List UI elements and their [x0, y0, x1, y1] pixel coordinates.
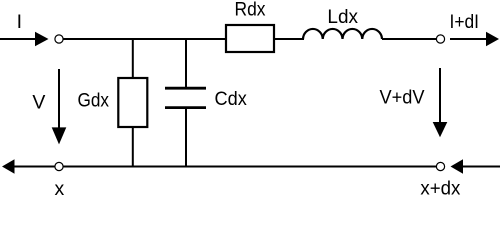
node right bottom terminal — [436, 162, 444, 170]
wire bottom-left — [14, 166, 56, 168]
node left top terminal — [55, 35, 63, 43]
arrowhead output current I+dI — [486, 32, 499, 46]
arrowhead input current I — [35, 32, 49, 46]
resistor G (Gdx) — [118, 78, 147, 127]
arrow voltage V head — [52, 127, 67, 144]
node right top terminal — [436, 35, 444, 43]
wire between Rdx and Ldx — [275, 38, 304, 40]
wire top-right — [382, 38, 436, 40]
wire Gdx top lead — [132, 38, 134, 79]
svg-text:x: x — [55, 178, 65, 197]
capacitor C bottom plate — [165, 106, 206, 109]
svg-text:V: V — [32, 92, 45, 114]
svg-text:x+dx: x+dx — [420, 178, 460, 197]
wire bottom-right — [462, 166, 500, 168]
resistor R (Rdx) — [226, 25, 274, 52]
arrow voltage V line — [58, 69, 60, 129]
arrow voltage V+dV head — [433, 122, 448, 137]
svg-text:I+dI: I+dI — [450, 11, 480, 33]
wire Cdx bottom lead — [185, 108, 187, 167]
svg-text:I: I — [17, 11, 22, 33]
wire Gdx bottom lead — [132, 126, 134, 167]
svg-text:Rdx: Rdx — [235, 0, 266, 21]
svg-text:Ldx: Ldx — [327, 6, 358, 28]
wire output — [450, 38, 487, 40]
wire bottom — [63, 166, 436, 168]
svg-text:Cdx: Cdx — [215, 88, 248, 110]
arrow voltage V+dV line — [439, 68, 441, 123]
inductor L (Ldx) — [303, 29, 382, 39]
wire top — [63, 38, 226, 40]
wire Cdx top lead — [185, 38, 187, 88]
svg-text:V+dV: V+dV — [380, 87, 425, 109]
capacitor C top plate — [165, 87, 206, 90]
arrowhead bottom-left return current — [2, 159, 15, 173]
arrowhead bottom-right return current — [451, 159, 464, 173]
svg-text:Gdx: Gdx — [78, 89, 110, 111]
node left bottom terminal — [55, 162, 63, 170]
wire top-left input — [0, 38, 36, 40]
